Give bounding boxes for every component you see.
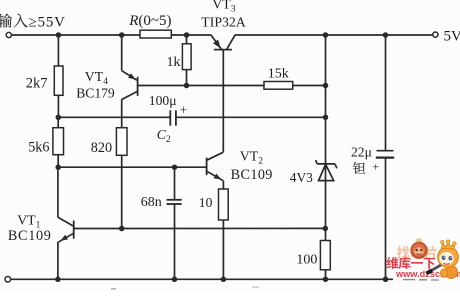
svg-text:5V: 5V [444,28,460,44]
svg-text:+: + [372,160,379,174]
svg-text:4V3: 4V3 [290,170,313,185]
svg-text:820: 820 [91,140,112,156]
svg-text:BC109: BC109 [231,167,273,183]
svg-text:BC109: BC109 [8,228,52,244]
svg-text:100μ: 100μ [149,93,177,108]
svg-text:10: 10 [199,195,213,210]
svg-text:5k6: 5k6 [28,139,49,155]
svg-text:+: + [180,102,188,117]
svg-text:1k: 1k [167,55,181,70]
svg-text:R(0~5): R(0~5) [128,13,171,29]
svg-text:≥55V: ≥55V [29,14,66,30]
svg-text:68n: 68n [141,195,162,210]
svg-text:100: 100 [296,252,317,267]
svg-text:2k7: 2k7 [26,75,48,91]
svg-text:BC179: BC179 [76,86,115,101]
svg-text:22μ: 22μ [351,144,372,159]
svg-text:TIP32A: TIP32A [201,15,245,30]
svg-text:15k: 15k [268,67,289,82]
